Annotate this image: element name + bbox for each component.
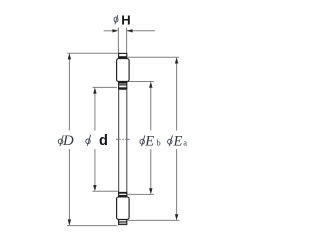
label φD <box>58 133 74 149</box>
extension line φD top <box>67 52 118 54</box>
extension line φD bottom <box>67 225 117 227</box>
dimension φH label <box>114 12 131 27</box>
extension lines φH <box>118 28 126 53</box>
arrowhead φEa up <box>175 57 178 63</box>
arrowhead φEb down <box>149 188 152 194</box>
extension line φEa bottom <box>128 219 180 221</box>
dimension line φEa <box>176 63 178 216</box>
svg-text:D: D <box>62 133 74 149</box>
center mark <box>116 138 130 140</box>
svg-text:b: b <box>157 139 161 148</box>
arrowhead φEa down <box>175 214 178 220</box>
arrowhead φd down <box>93 185 96 191</box>
label φEb <box>140 134 161 150</box>
bearing cage section lower <box>119 192 127 196</box>
bore line right <box>126 90 128 193</box>
svg-text:d: d <box>99 133 108 149</box>
svg-text:E: E <box>173 134 183 150</box>
dimension line φH <box>104 30 155 32</box>
extension line φEb top <box>127 81 154 83</box>
bearing roller bottom <box>117 197 130 220</box>
extension line φd bottom <box>92 190 118 192</box>
dimension line φEb <box>150 87 152 189</box>
svg-text:a: a <box>183 139 187 148</box>
arrowhead φH left <box>112 29 118 32</box>
arrowhead φEb up <box>149 82 152 88</box>
label φEa <box>168 134 188 150</box>
label φd <box>86 133 108 149</box>
bearing washer bottom <box>119 220 127 225</box>
svg-text:E: E <box>144 134 154 150</box>
arrowhead φd up <box>93 87 96 93</box>
svg-text:H: H <box>121 12 130 27</box>
extension line φEa top <box>128 56 179 58</box>
arrowhead φH right <box>127 29 133 32</box>
arrowhead φD up <box>68 53 71 59</box>
arrowhead φD down <box>68 219 71 225</box>
dimension line φD <box>68 59 70 221</box>
extension line φEb bottom <box>127 193 154 195</box>
bearing roller top <box>117 59 130 82</box>
extension line φd top <box>93 86 117 88</box>
bearing cage section upper <box>119 82 127 89</box>
dimension line φd <box>94 93 96 186</box>
bearing washer top <box>119 53 127 58</box>
bore line left <box>118 90 120 193</box>
